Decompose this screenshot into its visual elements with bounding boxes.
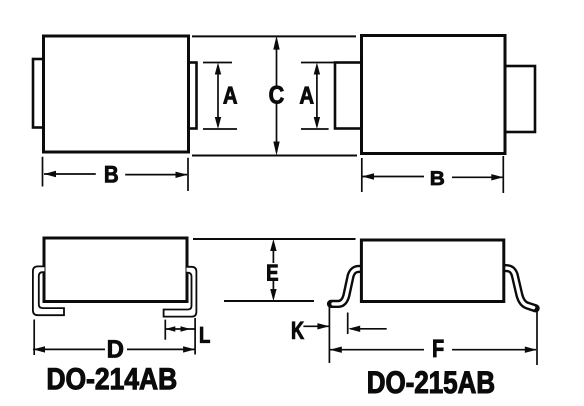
DO-214AB side view left J-lead [33,266,64,315]
arrowheads dimension L [165,326,175,332]
dimension D: extension line left [33,320,35,356]
dimension B left: extension lines [43,157,189,191]
label B right [431,171,444,185]
arrowheads dimension B left [44,171,56,177]
dimension C: extension lines [192,36,357,155]
dimension K: inner tick [347,313,349,335]
dimension E: arrow line [272,243,274,298]
dimension K: right arrow line [350,328,386,330]
dimension E: extension lines [193,239,356,301]
DO-214AB side view body [44,238,187,302]
dimension L: extension lines [165,318,195,355]
dimension A right: extension ticks [301,63,334,130]
DO-215AB side view right gull-wing lead [502,268,536,308]
dimension K: extension line at foot tip [328,305,330,363]
label A left [223,87,237,104]
dimension B right: dimension line [362,176,503,179]
DO-215AB side view body [361,240,503,302]
label F [433,340,443,357]
DO-215AB top view left terminal tab [335,63,362,129]
DO-215AB top view body [362,36,506,154]
arrowheads dimension F [330,347,342,353]
dimension B left: dimension line [44,173,187,176]
label L [200,327,210,343]
arrowhead dimension K left [317,323,329,329]
dimension F: extension line right [536,311,538,365]
arrowheads dimension B right [362,173,374,179]
DO-214AB top view left terminal tab [33,59,44,128]
arrowheads dimension E [270,239,276,251]
dimension A right: arrow line [316,66,318,126]
label B left [105,166,117,182]
label C [270,86,284,104]
label D [108,340,123,357]
arrowheads dimension C [273,36,279,50]
arrowheads dimension A right [314,63,320,75]
arrowhead dimension K right [348,326,360,332]
arrowheads dimension A left [215,63,221,75]
dimension K: left arrow line [303,325,329,327]
dimension C: arrow line [276,41,278,153]
dimension L: dimension line [165,328,195,330]
DO-214AB top view body [44,36,189,152]
DO-215AB side view left gull-wing lead [331,269,364,304]
DO-214AB top view right terminal tab [189,63,197,129]
DO-214AB side view right J-lead [164,267,197,317]
dimension F: dimension line [330,349,536,351]
label K [292,322,304,339]
dimension A left: arrow line [217,66,219,126]
label A right [300,87,314,104]
label DO-215AB [369,371,494,393]
dimension D: dimension line [33,348,195,350]
label DO-214AB [48,368,176,390]
arrowheads dimension D [33,346,45,352]
DO-215AB top view right terminal tab [505,66,535,132]
dimension B right: extension lines [362,156,504,193]
dimension A left: extension ticks [203,63,237,130]
label E [267,265,277,281]
